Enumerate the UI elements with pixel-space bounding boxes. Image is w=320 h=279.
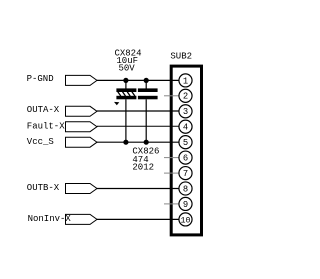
capacitor CX824 value label (114, 49, 141, 74)
port tag Vcc_S (66, 137, 98, 147)
wire Fault-X to pin 4 (97, 125, 179, 127)
CX826 lead bottom (145, 99, 147, 142)
svg-text:Vcc_S: Vcc_S (27, 137, 54, 147)
pin 2 (179, 89, 192, 102)
junction dot P-GND / CX824 (123, 78, 128, 83)
svg-text:10: 10 (181, 216, 191, 225)
svg-text:Fault-X: Fault-X (27, 121, 65, 131)
pin 9 stub (164, 203, 179, 205)
port tag OUTB-X (66, 184, 98, 194)
pin 10 (179, 213, 192, 226)
svg-text:SUB2: SUB2 (170, 52, 192, 62)
pin 7 (179, 167, 192, 180)
pin 8 (179, 182, 192, 195)
svg-text:5: 5 (183, 138, 188, 148)
svg-text:NonInv-X: NonInv-X (28, 214, 72, 224)
wire OUTA-X to pin 3 (97, 110, 179, 112)
capacitor CX826 (138, 88, 158, 99)
pin 7 stub (164, 172, 179, 174)
junction dot Vcc_S / CX824 (123, 140, 128, 145)
wire OUTB-X to pin 8 (97, 188, 179, 190)
port tag Fault-X (66, 122, 98, 132)
CX824 lead top (125, 80, 127, 88)
CX826 lead top (145, 80, 147, 88)
pin 1 (179, 74, 192, 87)
CX824 lead bottom (125, 99, 127, 142)
pin 6 stub (164, 157, 179, 159)
capacitor CX824 (116, 88, 136, 99)
svg-text:6: 6 (183, 154, 188, 164)
port tag NonInv-X (66, 214, 98, 224)
svg-text:7: 7 (183, 169, 188, 179)
svg-text:1: 1 (183, 76, 188, 86)
pin 5 (179, 136, 192, 149)
pin 2 stub (164, 95, 179, 97)
port tag OUTA-X (66, 106, 98, 116)
connector SUB2 body (171, 66, 201, 235)
svg-text:50V: 50V (118, 64, 135, 74)
svg-text:2012: 2012 (132, 162, 154, 172)
pin 3 (179, 105, 192, 118)
svg-text:4: 4 (183, 123, 188, 133)
wire NonInv-X to pin 10 (97, 218, 179, 220)
svg-text:P-GND: P-GND (27, 74, 54, 84)
capacitor CX826 value label (132, 147, 159, 173)
svg-text:8: 8 (183, 184, 188, 194)
junction dot P-GND / CX826 (144, 78, 149, 83)
svg-text:3: 3 (183, 107, 188, 117)
pin 9 (179, 197, 192, 210)
pin 6 (179, 151, 192, 164)
wire P-GND to pin 1 (97, 79, 179, 81)
port tag P-GND (66, 75, 98, 85)
svg-text:2: 2 (183, 92, 188, 102)
pin 4 (179, 120, 192, 133)
svg-text:OUTA-X: OUTA-X (27, 105, 60, 115)
svg-text:9: 9 (183, 200, 188, 210)
svg-text:OUTB-X: OUTB-X (27, 183, 60, 193)
junction dot Vcc_S / CX826 (144, 140, 149, 145)
wire Vcc_S to pin 5 (97, 141, 179, 143)
CX824 polarity + mark (114, 102, 119, 105)
